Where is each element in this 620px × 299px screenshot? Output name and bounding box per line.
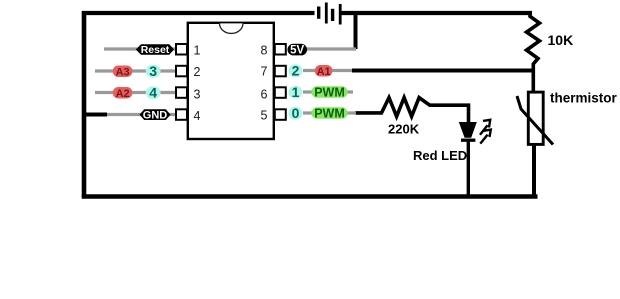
svg-text:A1: A1 [317,66,331,78]
svg-text:1: 1 [194,44,201,58]
svg-text:A2: A2 [116,88,130,100]
svg-text:GND: GND [143,110,168,122]
svg-text:6: 6 [261,88,268,102]
svg-text:PWM: PWM [314,86,345,100]
svg-text:0: 0 [292,105,300,121]
svg-text:5V: 5V [290,44,304,56]
svg-text:thermistor: thermistor [550,90,618,105]
svg-text:220K: 220K [388,122,420,137]
svg-text:4: 4 [194,109,201,123]
svg-text:7: 7 [261,64,268,78]
svg-text:2: 2 [194,65,201,79]
svg-text:10K: 10K [548,32,574,48]
svg-text:PWM: PWM [314,107,345,121]
svg-text:1: 1 [292,84,300,100]
svg-text:A3: A3 [116,66,130,78]
svg-text:Reset: Reset [141,44,170,56]
svg-text:5: 5 [261,109,268,123]
svg-text:8: 8 [261,43,268,57]
svg-text:2: 2 [292,63,300,79]
svg-text:Red LED: Red LED [413,148,467,163]
svg-text:3: 3 [194,88,201,102]
svg-text:3: 3 [149,63,157,79]
svg-text:4: 4 [149,85,157,101]
